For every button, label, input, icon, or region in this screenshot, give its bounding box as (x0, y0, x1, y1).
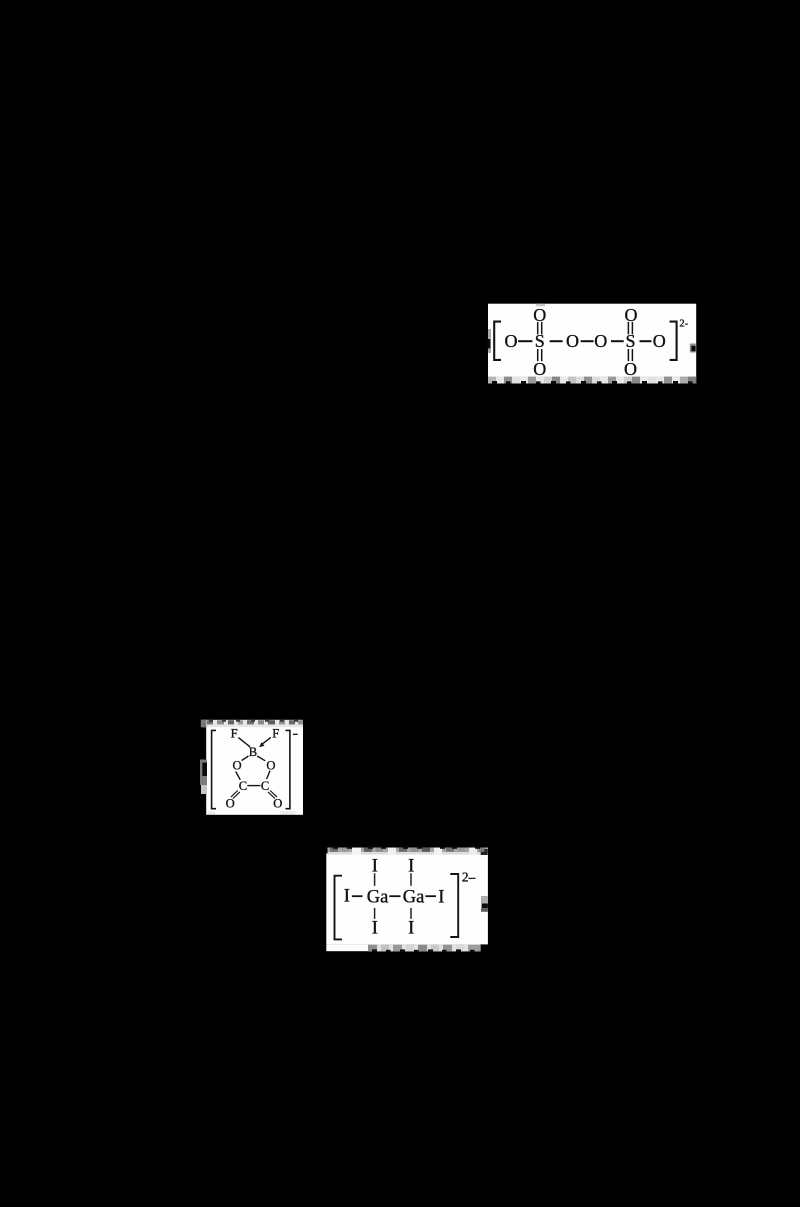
bond Ga-I (lower right) (410, 908, 412, 919)
double bond S1=O top (538, 322, 542, 334)
bracket right (286, 730, 290, 808)
svg-text:C: C (261, 779, 269, 793)
svg-text:2–: 2– (462, 869, 476, 884)
scan artifact: light nub top edge (536, 304, 545, 307)
bracket right (670, 322, 677, 360)
svg-text:I: I (438, 887, 444, 907)
dative arrow F->B (259, 737, 271, 747)
bond I-Ga (upper right) (410, 873, 412, 886)
svg-text:F: F (231, 726, 238, 740)
svg-text:Ga: Ga (367, 887, 389, 907)
scan artifact: dark gray block left of panel (200, 760, 207, 786)
svg-text:O: O (594, 331, 607, 351)
bond B-O left (242, 756, 249, 761)
scan artifact: gray square right inner edge (690, 344, 696, 353)
scan checkered strip top of panel (201, 719, 303, 727)
svg-text:S: S (625, 331, 635, 351)
scan checkered strip top of panel (328, 846, 488, 855)
scan artifact: black blob left edge (487, 339, 490, 349)
svg-text:F: F (272, 726, 279, 740)
svg-text:O: O (232, 758, 241, 772)
bond S2-O4 (640, 340, 652, 342)
svg-text:O: O (625, 305, 638, 325)
bracket left (212, 730, 216, 808)
svg-text:O: O (533, 359, 546, 379)
charge minus (293, 733, 298, 735)
svg-text:O: O (566, 331, 579, 351)
scan artifact: faint squares bottom of panel (208, 812, 216, 815)
bond I-Ga (upper left) (374, 873, 376, 886)
bond Ga-Ga (389, 895, 400, 897)
svg-text:O: O (226, 797, 235, 811)
bracket left (335, 876, 343, 940)
svg-text:O: O (624, 359, 637, 379)
scan artifact: gray column at left panel edge (488, 329, 491, 353)
svg-text:2-: 2- (679, 318, 688, 329)
bond O-C left (236, 772, 241, 780)
scan checkered strip bottom of panel (368, 945, 481, 953)
svg-text:Ga: Ga (403, 887, 425, 907)
svg-text:O: O (653, 331, 666, 351)
svg-text:I: I (372, 919, 378, 939)
scan artifact: black notch in gray square (691, 346, 695, 351)
scan artifact: black blob in gray block (202, 763, 207, 777)
scan artifact: light gray block below (201, 785, 207, 794)
svg-text:O: O (533, 305, 546, 325)
svg-text:C: C (239, 779, 247, 793)
double bond S1=O bottom (538, 349, 542, 361)
bond Ga-I (lower left) (374, 908, 376, 919)
svg-text:O: O (505, 331, 518, 351)
bond F-B (238, 738, 250, 747)
bond S1-O2 (550, 340, 563, 342)
svg-text:I: I (344, 887, 350, 907)
svg-text:O: O (266, 758, 275, 772)
white panel Ga2I6 (326, 854, 488, 945)
bond O3-S2 (611, 340, 624, 342)
svg-text:S: S (535, 331, 545, 351)
scan checkered strip bottom of panel (488, 377, 696, 385)
bond B-O right (257, 756, 265, 761)
bond Ga-I right (425, 895, 436, 897)
svg-text:I: I (408, 919, 414, 939)
bracket left (494, 322, 501, 360)
bond I-Ga left (352, 895, 363, 897)
double bond S2=O top (628, 322, 632, 334)
bond O2-O3 peroxide (581, 340, 594, 342)
scan artifact: gray blocks right of panel (481, 896, 488, 904)
bracket right (450, 874, 458, 937)
svg-text:O: O (273, 797, 282, 811)
svg-text:B: B (249, 745, 257, 759)
bond O1-S1 (518, 340, 532, 342)
bond O-C right (267, 771, 270, 779)
double bond C=O lower-left (231, 791, 240, 799)
double bond C=O lower-right (268, 791, 277, 799)
white panel S2O8 (488, 304, 696, 377)
white panel BF2ox (206, 726, 303, 815)
bond C-C (247, 785, 260, 787)
double bond S2=O bottom (628, 349, 632, 361)
